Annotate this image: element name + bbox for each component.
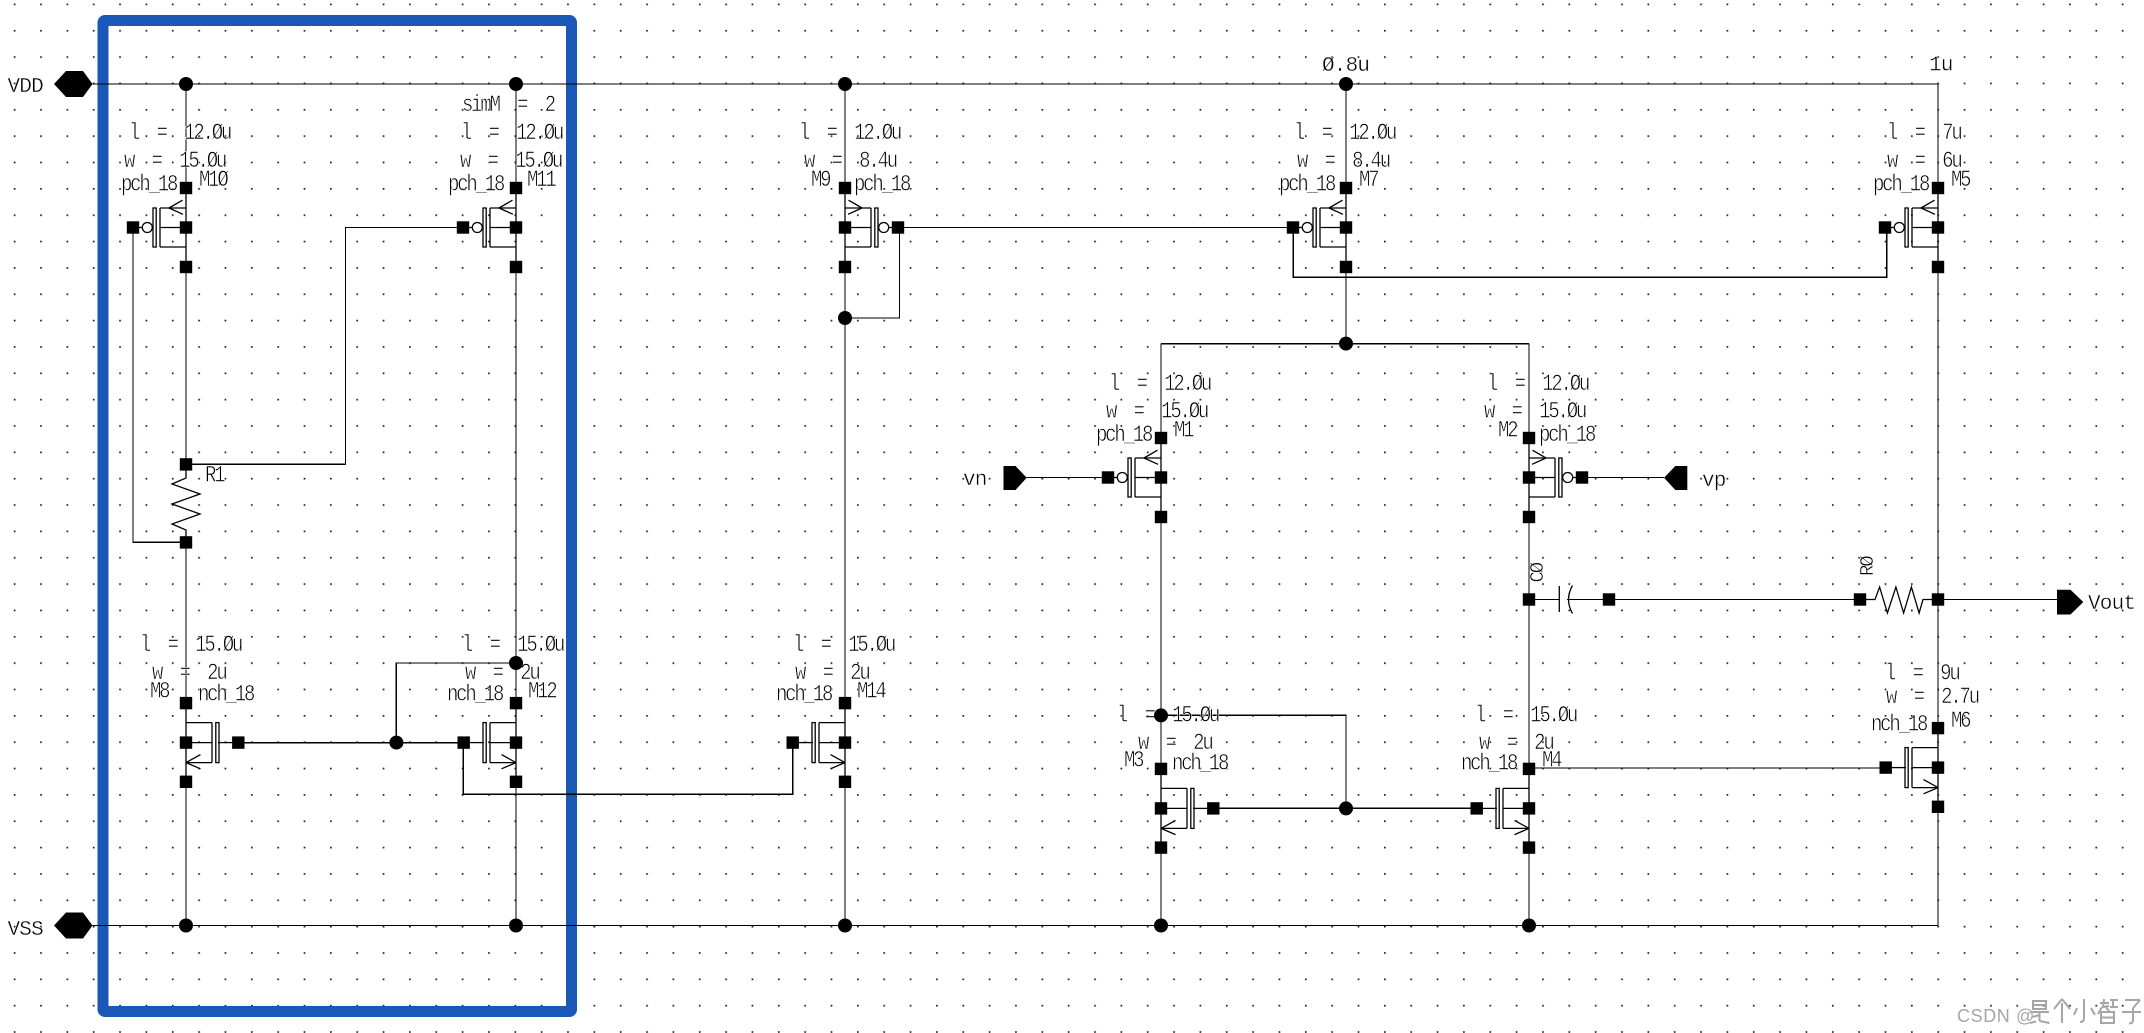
highlight box (blue): [103, 21, 572, 1012]
resistor R1: [172, 464, 200, 543]
svg-text:l = 12.Øu: l = 12.Øu: [1487, 373, 1589, 398]
wire vn to M1 gate: [1027, 477, 1108, 479]
pin VSS: [54, 913, 93, 939]
junction diff-pair tail: [1339, 337, 1353, 351]
pin VDD: [54, 71, 93, 97]
svg-text:nch_18: nch_18: [1172, 752, 1229, 777]
wire column M10/R1/M8 upper: [185, 84, 187, 478]
svg-text:M11: M11: [527, 169, 556, 194]
wire M10 gate to R1 bottom: [133, 228, 186, 543]
transistor M7 pch_18: [1287, 182, 1352, 273]
svg-text:pch_18: pch_18: [1873, 173, 1930, 198]
svg-text:R1: R1: [205, 464, 225, 489]
svg-text:l = 12.Øu: l = 12.Øu: [1294, 122, 1396, 147]
svg-text:vn: vn: [963, 469, 987, 492]
wire M9 gate to M7 gate: [900, 227, 1294, 229]
wire column M1/M3: [1160, 344, 1162, 926]
watermark CSDN: [1957, 1006, 2035, 1026]
svg-text:pch_18: pch_18: [1279, 173, 1336, 198]
transistor M12 nch_18: [458, 697, 523, 788]
wire C0 to R0: [1567, 599, 1854, 601]
svg-text:pch_18: pch_18: [1539, 424, 1596, 449]
junction VDD-M7: [1339, 77, 1353, 91]
junction M9 drain-gate: [838, 311, 852, 325]
capacitor C0: [1559, 586, 1572, 614]
svg-text:nch_18: nch_18: [1461, 752, 1518, 777]
junction VSS-M12: [509, 919, 523, 933]
svg-text:simM = 2: simM = 2: [462, 94, 556, 119]
junction VSS-M14: [838, 919, 852, 933]
transistor M2 pch_18 (mirrored): [1523, 432, 1588, 523]
svg-text:M4: M4: [1542, 749, 1562, 774]
junction M8/M12 gate net: [389, 736, 403, 750]
transistor M6 nch_18: [1880, 722, 1945, 813]
wire M8 gate to M12 gate: [239, 742, 463, 744]
svg-text:M7: M7: [1359, 169, 1378, 194]
junction VDD-M9: [838, 77, 852, 91]
svg-text:M3: M3: [1124, 749, 1144, 774]
svg-text:l = 9u: l = 9u: [1885, 662, 1959, 687]
svg-text:1u: 1u: [1929, 55, 1953, 78]
wire column M9/M14: [844, 84, 846, 926]
svg-text:M9: M9: [811, 169, 831, 194]
svg-text:l = 15.Øu: l = 15.Øu: [1475, 704, 1577, 729]
svg-text:l = 12.Øu: l = 12.Øu: [461, 122, 563, 147]
svg-text:VDD: VDD: [8, 76, 44, 99]
transistor M9 pch_18 (mirrored): [839, 182, 904, 273]
svg-text:l = 15.Øu: l = 15.Øu: [1117, 704, 1219, 729]
svg-text:nch_18: nch_18: [776, 683, 833, 708]
svg-text:l = 15.Øu: l = 15.Øu: [793, 634, 895, 659]
junction VSS-M8: [179, 919, 193, 933]
svg-text:l = 12.Øu: l = 12.Øu: [799, 122, 901, 147]
pin vp: [1664, 466, 1687, 490]
wire M12 gate to M14 gate: [463, 748, 793, 794]
svg-text:vp: vp: [1702, 470, 1726, 493]
watermark hanzi: [2030, 999, 2141, 1024]
wire M9 gate-drain tap: [845, 228, 900, 319]
svg-text:l = 12.Øu: l = 12.Øu: [129, 122, 231, 147]
wire M4 drain to M6 gate: [1529, 767, 1884, 769]
svg-text:Ø.8u: Ø.8u: [1322, 55, 1369, 78]
transistor M11 pch_18: [457, 182, 522, 273]
transistor M8 nch_18 (mirrored): [180, 697, 245, 788]
pin vn: [1004, 466, 1027, 490]
svg-text:l = 15.Øu: l = 15.Øu: [140, 634, 242, 659]
transistor M10 pch_18: [127, 182, 192, 273]
transistor M14 nch_18: [787, 697, 852, 788]
wire M3 gate to M4 gate: [1214, 807, 1475, 809]
wire column M2/M4: [1528, 344, 1530, 926]
svg-text:pch_18: pch_18: [448, 173, 505, 198]
svg-text:l = 15.Øu: l = 15.Øu: [462, 634, 564, 659]
svg-text:CSDN @: CSDN @: [1957, 1006, 2035, 1026]
svg-text:RØ: RØ: [1857, 556, 1879, 576]
svg-text:nch_18: nch_18: [198, 683, 255, 708]
wire M3 drain diode tap: [1161, 715, 1346, 808]
transistor M1 pch_18: [1102, 432, 1167, 523]
pin Vout: [2057, 590, 2083, 615]
svg-text:VSS: VSS: [8, 919, 44, 942]
wire M7 gate to M5 gate: [1293, 228, 1887, 278]
svg-text:M6: M6: [1951, 710, 1971, 735]
junction M3/M4 gate net: [1339, 801, 1353, 815]
svg-text:CØ: CØ: [1527, 562, 1549, 582]
svg-text:nch_18: nch_18: [1871, 713, 1928, 738]
wire VDD rail: [93, 83, 1939, 85]
junction VSS-M4: [1522, 919, 1536, 933]
wire M11 gate to R1 top: [186, 228, 462, 465]
junction VDD-M10: [179, 77, 193, 91]
junction M12 drain-gate: [509, 656, 523, 670]
svg-text:M8: M8: [150, 680, 170, 705]
junction M3 drain-gate: [1154, 708, 1168, 722]
wire C0 left lead: [1529, 599, 1559, 601]
wire M12 drain tap: [396, 663, 516, 743]
svg-text:M14: M14: [857, 680, 886, 705]
svg-text:M1Ø: M1Ø: [199, 169, 228, 194]
net label 0.8u: [1322, 55, 1369, 78]
svg-text:w = 2.7u: w = 2.7u: [1886, 686, 1979, 711]
wire R0 to Vout: [1944, 599, 2058, 601]
svg-text:pch_18: pch_18: [121, 173, 178, 198]
transistor M5 pch_18: [1879, 182, 1944, 273]
wire column M11/M12: [515, 84, 517, 926]
transistor M4 nch_18: [1471, 763, 1536, 854]
svg-text:M12: M12: [528, 680, 557, 705]
svg-text:Vout: Vout: [2088, 593, 2135, 616]
svg-text:l = 12.Øu: l = 12.Øu: [1109, 373, 1211, 398]
wire column M5/M6: [1937, 84, 1939, 926]
wire column M10/R1/M8 lower: [185, 530, 187, 926]
svg-text:w = 15.Øu: w = 15.Øu: [1106, 400, 1208, 425]
svg-text:M2: M2: [1498, 419, 1518, 444]
svg-text:M1: M1: [1174, 419, 1194, 444]
junction VSS-M3: [1154, 919, 1168, 933]
wire column M7: [1345, 84, 1347, 344]
svg-text:pch_18: pch_18: [1096, 424, 1153, 449]
svg-text:M5: M5: [1951, 169, 1971, 194]
svg-text:l = 7u: l = 7u: [1887, 122, 1961, 147]
wire M2 gate to vp: [1582, 477, 1664, 479]
net label 1u: [1929, 55, 1953, 78]
svg-text:nch_18: nch_18: [447, 683, 504, 708]
resistor R0: [1866, 587, 1932, 613]
transistor M3 nch_18 (mirrored): [1155, 763, 1220, 854]
junction VDD-M11: [509, 77, 523, 91]
wire diff pair tail: [1161, 343, 1529, 345]
wire VSS rail: [93, 925, 1939, 927]
svg-text:pch_18: pch_18: [854, 173, 911, 198]
